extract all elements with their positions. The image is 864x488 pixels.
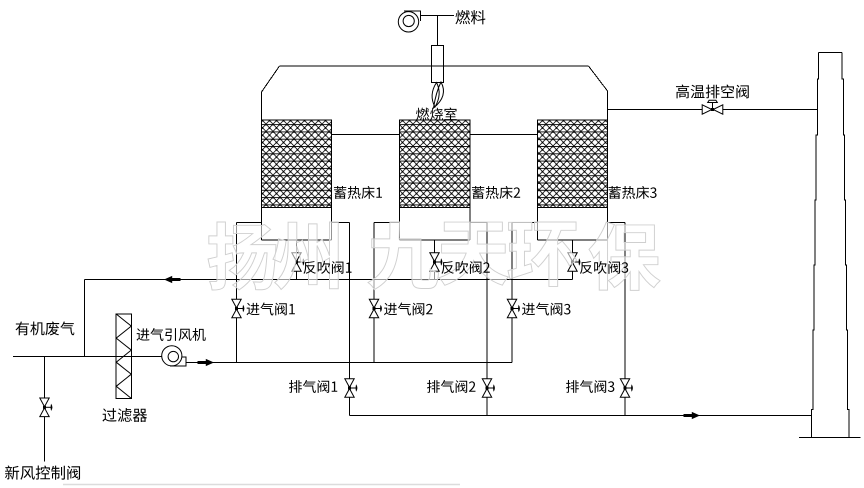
intake fan 进气引风机 [162,346,186,366]
label 排气阀1 [289,380,337,393]
watermark 扬州九天环保 [208,222,276,290]
label 反吹阀1 [303,261,351,274]
label 排气阀2 [427,380,475,393]
valve intake valve 3 进气阀3 [507,299,520,318]
valve exhaust valve 3 排气阀3 [620,379,633,398]
burner nozzle [432,46,444,83]
intake riser 2 [373,223,375,363]
backblow drop 1 [296,240,298,280]
label fuel 燃料 [455,10,485,24]
label 进气阀3 [522,303,570,316]
main intake header [186,362,512,364]
flame [432,82,443,108]
vent line [608,109,818,111]
valve backblow valve 2 反吹阀2 [430,253,443,272]
tap box3 right [608,222,626,224]
flow arrow main intake (right) [198,359,215,366]
tap box2 left [374,222,400,224]
label bed3 蓄热床3 [608,186,656,199]
fuel blower B1 [398,11,420,32]
flow arrow backblow (left) [164,276,181,283]
exhaust drop 2 [486,223,488,416]
valve intake valve 2 进气阀2 [369,299,382,318]
heat storage bed 2 蓄热床2 [400,120,471,208]
label intake fan 进气引风机 [137,328,206,341]
plenum box 1 [262,208,332,241]
label bed2 蓄热床2 [472,186,520,199]
label combustion chamber 燃烧室 [416,108,457,121]
valve exhaust valve 1 排气阀1 [345,379,358,398]
heat storage bed 3 蓄热床3 [538,120,608,208]
valve exhaust valve 2 排气阀2 [482,379,495,398]
label organic waste gas 有机废气 [16,321,75,335]
chimney base ground line [799,437,861,439]
valve backblow valve 1 反吹阀1 [292,253,305,272]
intake riser 1 [236,223,238,363]
wire blower to fuel tee [421,15,455,17]
tap box2 right [470,222,487,224]
backblow left drop [84,280,86,357]
exhaust drop 3 [624,223,626,416]
filter 过滤器 [116,314,131,398]
intake riser 3 [511,223,513,363]
upper plenum link bed1-bed2 [332,134,400,136]
label 新风控制阀 [5,466,80,480]
label 进气阀2 [384,303,433,316]
label 进气阀1 [247,303,295,316]
label 高温排空阀 [676,85,749,99]
label 反吹阀3 [580,261,628,274]
inlet line [13,356,163,358]
backblow drop 3 [572,240,574,280]
exhaust drop 1 [349,223,351,416]
flow arrow exhaust (right) [684,412,701,419]
exhaust header [350,415,812,417]
upper plenum link bed2-bed3 [470,134,538,136]
label bed1 蓄热床1 [334,186,382,199]
plenum box 3 [538,208,608,241]
backblow drop 2 [434,240,436,280]
backblow header [85,279,573,281]
tap box1 right [332,222,350,224]
label 排气阀3 [566,380,614,393]
watermark bottom row remnant [63,484,460,486]
valve fresh air control valve 新风控制阀 [40,398,53,417]
valve backblow valve 3 反吹阀3 [568,253,581,272]
plenum box 2 [400,208,471,241]
fresh air branch [44,357,46,462]
chimney stack [812,53,819,438]
tap box1 left [237,222,262,224]
valve high-temp vent valve 高温排空阀 [702,100,723,114]
valve intake valve 1 进气阀1 [232,299,245,318]
label 反吹阀2 [441,261,489,274]
combustion chamber shell [262,66,608,240]
wire fuel tee down to burner [437,16,439,46]
heat storage bed 1 蓄热床1 [262,120,332,208]
label filter 过滤器 [102,408,147,422]
tap box3 left [512,222,538,224]
